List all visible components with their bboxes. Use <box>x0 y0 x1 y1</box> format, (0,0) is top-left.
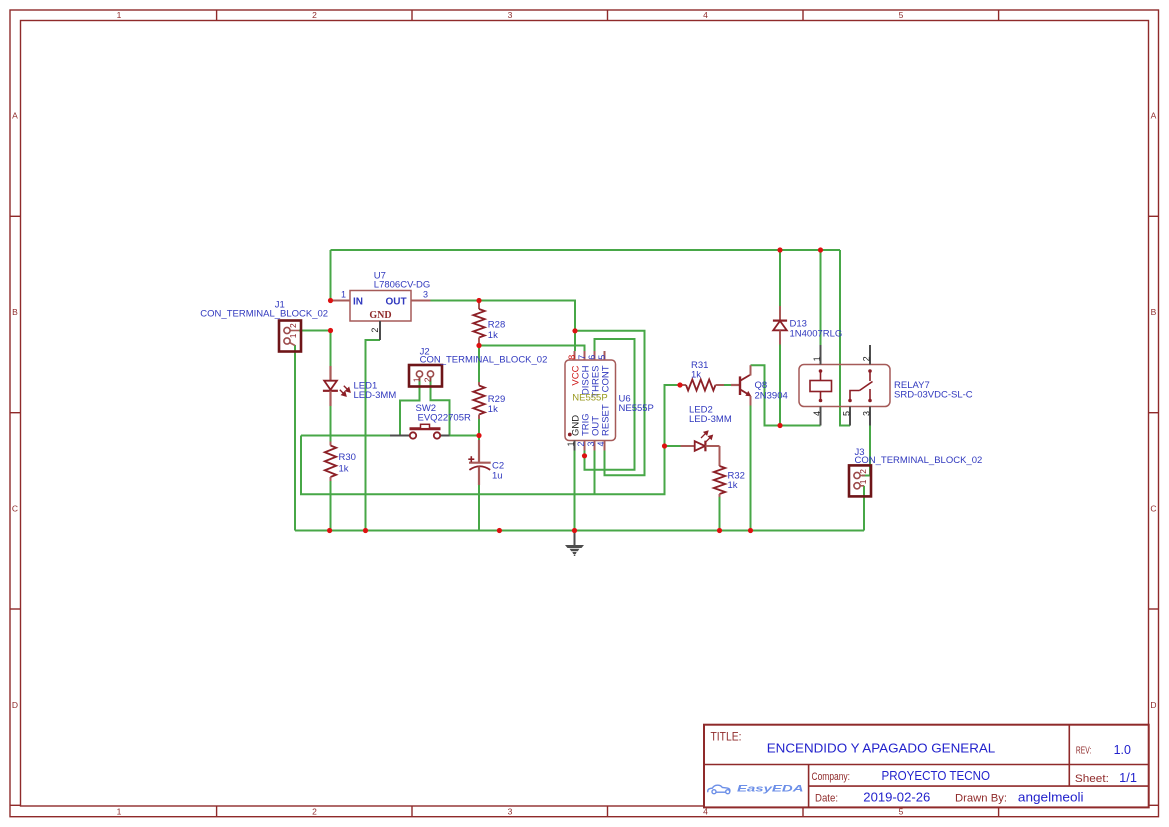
LED1 LED-3MM <box>323 366 396 406</box>
svg-text:3: 3 <box>508 10 513 20</box>
junction dot: node R28 / R29 / DISCH <box>476 343 481 348</box>
svg-text:GND: GND <box>369 310 391 321</box>
connector J2 CON_TERMINAL_BLOCK_02 <box>409 347 547 387</box>
junction dot: node VCC pin8 <box>572 328 577 333</box>
svg-text:A: A <box>12 111 18 121</box>
wire: DISCH to R28 bottom <box>479 346 585 352</box>
relay RELAY7 SRD-03VDC-SL-C <box>799 345 973 426</box>
junction dot: junction D13 / coil rail <box>777 423 782 428</box>
LED1 emission arrows <box>340 386 350 396</box>
wire: SW2 to OUT/LED run <box>301 385 677 494</box>
junction dot: junction relay pin1 / VCC rail <box>818 247 823 252</box>
svg-text:Q8: Q8 <box>755 380 768 391</box>
svg-text:TITLE:: TITLE: <box>711 732 742 744</box>
wire: LED1 cathode to R30 <box>330 406 332 442</box>
wire: J3 pin1 to rail <box>863 486 865 531</box>
junction dot: junction R32 / GND rail <box>717 528 722 533</box>
svg-text:1: 1 <box>411 377 421 382</box>
wire: C2 bottom to rail <box>478 484 480 531</box>
svg-text:R30: R30 <box>339 452 356 463</box>
svg-text:CONT: CONT <box>601 365 612 392</box>
svg-text:8: 8 <box>567 355 577 360</box>
svg-text:Drawn By:: Drawn By: <box>955 792 1007 804</box>
svg-text:EVQ22705R: EVQ22705R <box>418 413 471 424</box>
junction dot: junction U7 GND / GND rail <box>363 528 368 533</box>
wire: J2 pin1 to SW2 left <box>400 377 420 436</box>
svg-text:2: 2 <box>422 377 432 382</box>
svg-text:D: D <box>1150 700 1156 710</box>
svg-text:1k: 1k <box>488 404 498 415</box>
ground symbol <box>565 531 584 557</box>
wire: LED2/R32 to rail <box>719 497 721 531</box>
svg-text:SRD-03VDC-SL-C: SRD-03VDC-SL-C <box>894 390 973 401</box>
svg-text:1: 1 <box>117 807 122 817</box>
wire: J1 pin2 to node <box>299 330 331 332</box>
wire: RC node down to C2 <box>478 436 480 441</box>
svg-text:2: 2 <box>861 356 871 361</box>
svg-text:1k: 1k <box>691 370 701 381</box>
pushbutton SW2 EVQ22705R <box>390 403 471 439</box>
wire: node to LED1 <box>330 331 332 367</box>
junction dot: node OUT / LED2 <box>662 443 667 448</box>
svg-text:1: 1 <box>117 10 122 20</box>
wire: relay pin3 to J3 pin2 <box>862 426 870 476</box>
junction dot: junction R30 / GND rail <box>327 528 332 533</box>
wire: SW2 left stub to vertical <box>301 435 390 437</box>
EasyEDA logo <box>708 785 730 794</box>
svg-text:RESET: RESET <box>601 404 612 436</box>
svg-text:4: 4 <box>596 442 606 447</box>
svg-text:OUT: OUT <box>386 297 407 308</box>
svg-text:2: 2 <box>576 442 586 447</box>
svg-text:2: 2 <box>858 469 868 474</box>
wire: R29 bottom to RC node <box>478 419 480 436</box>
svg-text:PROYECTO TECNO: PROYECTO TECNO <box>882 769 991 783</box>
svg-text:B: B <box>1151 307 1157 317</box>
svg-text:5: 5 <box>899 10 904 20</box>
transistor Q8 2N3904 <box>731 365 788 405</box>
connector J1 CON_TERMINAL_BLOCK_02 <box>200 300 328 352</box>
wire: bottom GND rail <box>295 530 864 532</box>
junction dot: node R31 left <box>677 382 682 387</box>
wire: top VCC rail <box>331 249 841 251</box>
svg-text:1k: 1k <box>728 480 738 491</box>
svg-text:1u: 1u <box>492 471 503 482</box>
wire: U7 OUT rail <box>431 301 576 352</box>
svg-text:C: C <box>1150 504 1156 514</box>
resistor R31 1k <box>677 360 724 391</box>
svg-text:NE555P: NE555P <box>619 403 654 414</box>
wire: R28 bottom to R29 top <box>478 346 480 383</box>
wire: J2 pin2 to SW2 right <box>431 377 450 436</box>
wire: OUT down <box>594 451 596 495</box>
resistor R28 1k <box>473 301 505 346</box>
junction dot: junction D13 / VCC rail <box>777 247 782 252</box>
svg-text:2: 2 <box>312 10 317 20</box>
junction dot: node R29 / SW2 / C2 <box>476 433 481 438</box>
svg-text:4: 4 <box>812 411 822 416</box>
svg-text:2: 2 <box>370 328 380 333</box>
wire: R31 to Q8 base <box>724 384 731 386</box>
voltage regulator U7 L7806CV-DG <box>331 270 431 340</box>
wire: VCC node to RESET loop <box>575 331 645 475</box>
svg-text:2: 2 <box>288 323 298 328</box>
svg-text:R28: R28 <box>488 319 505 330</box>
svg-text:1.0: 1.0 <box>1114 743 1131 757</box>
svg-text:NE555P: NE555P <box>572 393 607 404</box>
resistor R29 1k <box>473 382 505 419</box>
svg-text:5: 5 <box>597 355 607 360</box>
junction dot: node OUT rail / R28 <box>476 298 481 303</box>
svg-text:1/1: 1/1 <box>1119 771 1137 785</box>
junction dot: node U7 IN / J1 <box>328 298 333 303</box>
LED2 emission arrows <box>701 431 712 442</box>
wire: D13 bottom <box>779 345 781 426</box>
resistor R32 1k <box>714 463 745 497</box>
svg-text:1: 1 <box>812 356 822 361</box>
svg-text:1: 1 <box>566 442 576 447</box>
svg-text:6: 6 <box>587 355 597 360</box>
svg-text:7: 7 <box>577 355 587 360</box>
svg-text:2: 2 <box>312 807 317 817</box>
wire: top rail down to U7 pin1 <box>330 250 332 301</box>
svg-text:LED-3MM: LED-3MM <box>689 414 732 425</box>
svg-text:CON_TERMINAL_BLOCK_02: CON_TERMINAL_BLOCK_02 <box>855 455 983 466</box>
svg-text:1: 1 <box>288 333 298 338</box>
svg-text:1N4007RLG: 1N4007RLG <box>790 328 843 339</box>
junction dot: junction 555 GND / ground <box>572 528 577 533</box>
svg-text:3: 3 <box>508 807 513 817</box>
svg-text:angelmeoli: angelmeoli <box>1018 790 1084 804</box>
svg-text:REV:: REV: <box>1076 746 1091 757</box>
wire: U7 GND down <box>366 340 381 531</box>
svg-text:1k: 1k <box>488 330 498 341</box>
svg-text:B: B <box>12 307 18 317</box>
wire: R30 to bottom rail <box>330 481 332 531</box>
svg-text:L7806CV-DG: L7806CV-DG <box>374 280 431 291</box>
wire: relay pin5 stub join <box>849 425 851 427</box>
wire: LED2 anode branch <box>665 445 681 447</box>
timer IC U6 NE555P <box>565 351 654 451</box>
junction dot: junction Q8 emitter / GND rail <box>748 528 753 533</box>
svg-text:5: 5 <box>841 411 851 416</box>
wire: J1 pin1 down <box>294 345 296 531</box>
svg-text:EasyEDA: EasyEDA <box>737 784 804 795</box>
junction dot: node J1 pin2 / LED1 <box>328 328 333 333</box>
svg-text:Date:: Date: <box>815 792 838 804</box>
svg-text:3: 3 <box>586 442 596 447</box>
svg-text:IN: IN <box>353 297 363 308</box>
svg-text:Company:: Company: <box>812 771 851 783</box>
svg-text:2N3904: 2N3904 <box>755 391 788 402</box>
wire: rail drop through relay to pin5 <box>840 250 850 426</box>
wire: THRES-TRIG loop <box>585 339 635 470</box>
svg-text:1: 1 <box>858 479 868 484</box>
connector J3 CON_TERMINAL_BLOCK_02 <box>849 447 982 497</box>
wire: Q8 emitter to rail <box>750 406 752 531</box>
wire: Q8 collector loop <box>751 365 781 425</box>
svg-text:LED-3MM: LED-3MM <box>354 390 397 401</box>
resistor R30 1k <box>325 442 356 482</box>
svg-text:1k: 1k <box>339 464 349 475</box>
svg-text:2019-02-26: 2019-02-26 <box>863 790 930 804</box>
junction dot: node TRIG pin2 <box>582 453 587 458</box>
svg-text:D: D <box>12 700 18 710</box>
svg-text:A: A <box>1151 111 1157 121</box>
svg-text:CON_TERMINAL_BLOCK_02: CON_TERMINAL_BLOCK_02 <box>200 309 328 320</box>
svg-text:CON_TERMINAL_BLOCK_02: CON_TERMINAL_BLOCK_02 <box>420 355 548 366</box>
wire: D13 top <box>779 250 781 306</box>
svg-text:ENCENDIDO Y APAGADO GENERAL: ENCENDIDO Y APAGADO GENERAL <box>767 741 996 756</box>
svg-text:4: 4 <box>703 10 708 20</box>
svg-text:Sheet:: Sheet: <box>1075 773 1109 785</box>
LED2 LED-3MM <box>681 405 732 464</box>
wire: 555 GND pin to rail <box>574 451 576 531</box>
wire: SW2 right to RC node <box>450 435 480 437</box>
junction dot: junction C2 / GND rail <box>497 528 502 533</box>
wire: coil bottom rail to relay pin4 <box>780 425 821 427</box>
svg-text:C: C <box>12 504 18 514</box>
svg-text:3: 3 <box>423 290 428 300</box>
capacitor C2 1u polarized <box>468 440 504 485</box>
title block <box>704 725 1149 808</box>
svg-text:3: 3 <box>861 411 871 416</box>
svg-text:1: 1 <box>341 290 346 300</box>
diode D13 1N4007RLG <box>773 306 842 345</box>
wire: relay pin1 to rail <box>820 250 822 345</box>
